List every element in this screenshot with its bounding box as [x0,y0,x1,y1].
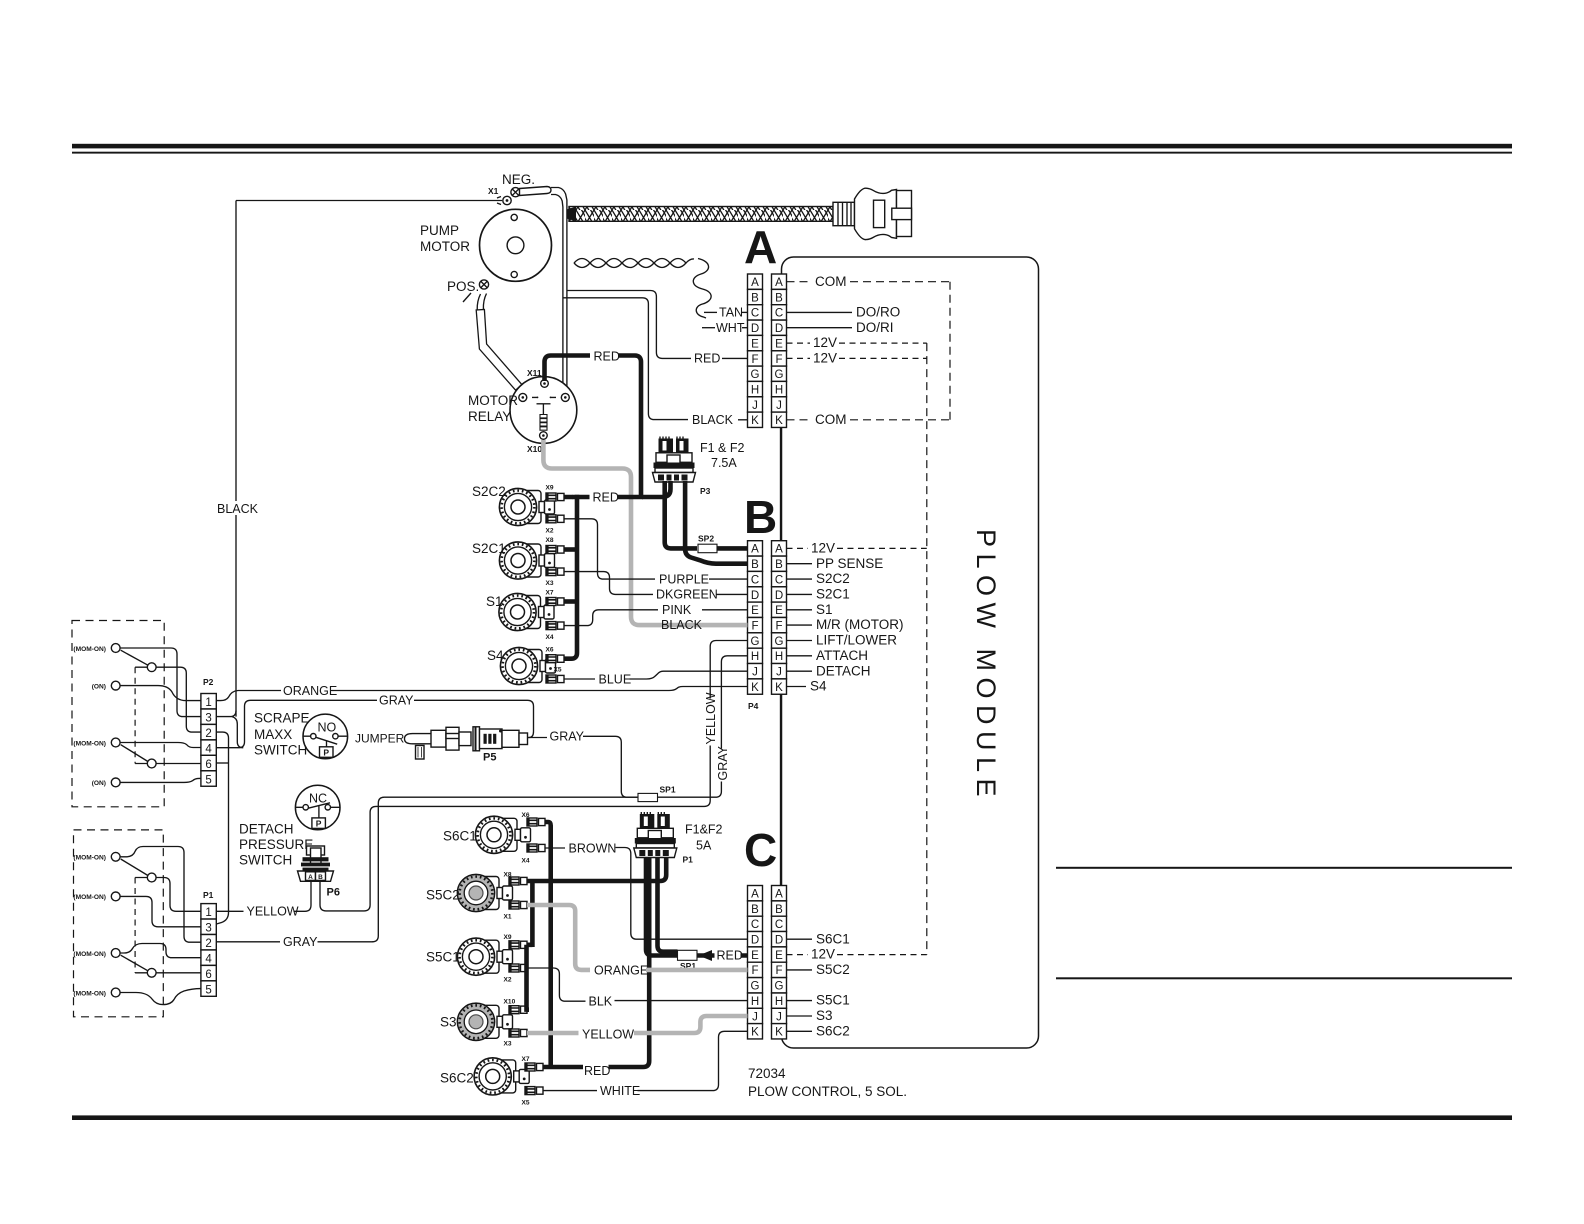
svg-text:A: A [775,544,783,556]
YELLOW gray wire after label to C-J [634,1016,748,1033]
svg-text:J: J [776,400,782,412]
POS battery cable to motor relay [477,294,486,311]
svg-text:F1 & F2: F1 & F2 [700,441,745,455]
svg-text:X7: X7 [522,1056,530,1063]
svg-text:TAN: TAN [719,306,743,320]
S4 terminal X6 [546,655,564,663]
wire P1 switch1 common to pin 1 [156,878,201,912]
svg-text:A: A [775,889,783,901]
svg-text:P5: P5 [483,752,496,764]
P2 switch linkage dashed [135,667,147,763]
svg-text:BLK: BLK [589,994,613,1008]
svg-text:H: H [751,384,759,396]
svg-text:A: A [775,277,783,289]
svg-text:B: B [318,874,323,881]
svg-text:ORANGE: ORANGE [594,963,648,977]
svg-text:D: D [775,323,783,335]
svg-text:G: G [751,369,760,381]
svg-text:P6: P6 [327,887,340,899]
BLACK wire label [216,501,258,515]
svg-text:P1: P1 [203,890,214,900]
svg-text:X8: X8 [546,537,554,544]
fuse F1 and F2 5A block P1 [634,812,677,858]
svg-text:F: F [775,354,782,366]
wire P1 switch1 MOM-ON top to pin 2 [120,847,201,943]
svg-text:J: J [752,400,758,412]
wire from X1 ring terminal to long black vertical [236,200,502,202]
plow module enclosure box [782,257,1039,1048]
PINK wire S1 X4 to B-E [564,610,658,626]
svg-text:S2C1: S2C1 [816,587,850,602]
A-A COM label and dashed leads [787,281,813,283]
svg-text:RED: RED [584,1064,610,1078]
spliced small wires from negative cable [567,291,691,359]
BROWN wire after label to C-D [616,848,748,940]
S1 terminal X7 [546,598,564,606]
P5 harness connector [473,727,528,751]
RED 12V wire SP1 to C-E with arrow [697,953,748,958]
svg-text:YELLOW: YELLOW [582,1028,634,1042]
svg-text:(MOM-ON): (MOM-ON) [73,646,106,653]
RED feed bus along coils X9 to X6 [564,495,577,659]
ORANGE wire to B-K after label [332,687,748,691]
svg-text:PRESSURE: PRESSURE [239,837,313,852]
svg-text:C: C [775,574,783,586]
connector A left column pin boxes [748,274,763,427]
RED bus branch to X8 [564,547,579,552]
svg-text:DO/RI: DO/RI [856,320,894,335]
svg-text:GRAY: GRAY [379,694,414,708]
connector B right column pin boxes [772,541,787,695]
PURPLE wire S2C2 X2 to B-C [564,519,655,579]
svg-text:E: E [751,950,759,962]
solenoid coil S4 [500,647,555,684]
svg-text:J: J [752,1011,758,1023]
svg-text:X6: X6 [546,646,554,653]
B-A 12V label and dashed leads [787,547,809,549]
DKGREEN lead to box [716,593,748,595]
A-C DO/RO label and lead [787,311,853,313]
P1 rocker switch 1 contacts [111,852,156,900]
S5C2 terminal X1 [509,901,527,909]
svg-text:S6C2: S6C2 [440,1071,474,1086]
svg-text:POS.: POS. [447,279,479,294]
battery cable plug connector [855,188,912,239]
svg-text:5A: 5A [696,839,712,853]
svg-text:PINK: PINK [662,603,692,617]
svg-text:X1: X1 [488,186,499,196]
X1 ring terminal [497,196,511,204]
RED label (coil feed C) [583,1064,610,1079]
svg-text:DETACH: DETACH [816,663,871,678]
wire P2 switch2 common to pin 6 [156,763,201,765]
S6C2 terminal X7 [525,1063,543,1071]
RED thick wire from relay X11 to fuse P3 [545,356,591,382]
svg-text:ATTACH: ATTACH [816,648,868,663]
svg-text:X9: X9 [504,934,512,941]
fuse output wires to SP2 and splice to B-A B-B [665,481,697,548]
GRAY vertical wire label [716,745,730,781]
pump motor body [480,209,552,281]
svg-text:(ON): (ON) [92,780,106,787]
svg-text:X11: X11 [527,368,542,378]
svg-text:BLACK: BLACK [217,502,259,516]
svg-text:X8: X8 [504,872,512,879]
BLACK wire from negative cable to A-K [563,298,688,420]
wire P2 switch2 ON to pin 5 [120,778,201,782]
A-F 12V label and dashed leads [787,357,811,359]
svg-text:B: B [775,559,783,571]
svg-text:BLUE: BLUE [599,672,632,686]
fuse P1 output wire 2 to SP1 splice [658,858,678,952]
wire P1 switch2 common to pin 6 [156,972,201,974]
svg-text:S1: S1 [486,594,503,609]
battery cable ribbed boot [833,202,855,225]
svg-text:2: 2 [205,938,211,950]
wire from connector A right K to connector B right A [780,428,782,541]
S6C2 terminal X5 [525,1087,543,1095]
svg-text:6: 6 [205,969,211,981]
svg-text:SP2: SP2 [698,534,714,544]
PINK lead to box [702,609,748,611]
svg-text:MOTOR: MOTOR [420,239,470,254]
svg-text:X4: X4 [546,634,554,641]
connector C right column pin boxes [772,886,787,1039]
svg-text:RED: RED [717,949,743,963]
svg-text:5: 5 [205,774,211,786]
fuse P1 output wire to SP1 splice [646,858,678,956]
GRAY wire P1 pin2 [216,941,280,943]
WHITE wire after label to C-K [638,1031,748,1090]
svg-text:X4: X4 [522,858,530,865]
S6C1 terminal X4 [527,844,545,852]
GRAY wire to P5 connector [414,700,534,737]
svg-text:K: K [751,1027,759,1039]
battery cable braid [567,207,834,222]
solenoid coil S1 [499,593,554,630]
connector P2 pin boxes [201,694,216,787]
svg-text:A: A [744,221,777,273]
connector A right column pin boxes [772,274,787,427]
BROWN wire S6C1 X4 to C-D [545,847,565,849]
bottom border line [72,1115,1512,1120]
svg-text:K: K [751,682,759,694]
svg-text:C: C [775,308,783,320]
GRAY wire after label to riser [318,941,374,943]
svg-text:JUMPER: JUMPER [355,732,405,746]
svg-text:12V: 12V [811,947,835,962]
long black wire down left side (to P2 pin 3) [235,201,237,717]
svg-text:12V: 12V [811,541,835,556]
wire P2 pin3 branch to pin4 row [232,717,243,748]
svg-text:F: F [751,621,758,633]
svg-text:P2: P2 [203,677,214,687]
wire P1 switch1 MOM-ON bottom to pin 3 [120,896,201,926]
C-K S6C2 label and lead [787,1030,813,1032]
svg-text:6: 6 [205,759,211,771]
svg-text:RELAY: RELAY [468,409,511,424]
C-D S6C1 label and lead [787,938,813,940]
svg-text:P: P [323,748,329,758]
svg-text:P3: P3 [700,486,711,496]
X11 terminal [541,380,549,388]
svg-text:P: P [316,819,322,829]
svg-text:J: J [776,1011,782,1023]
svg-text:GRAY: GRAY [550,729,585,743]
svg-text:F: F [751,354,758,366]
svg-text:F: F [751,965,758,977]
WHITE wire S6C2 X5 to C-K [543,1090,597,1092]
svg-text:S2C2: S2C2 [472,484,506,499]
S5C2 terminal X8 [509,877,527,885]
svg-text:B: B [751,559,759,571]
svg-text:A: A [751,544,759,556]
C-J S3 label and lead [787,1015,813,1017]
svg-text:WHITE: WHITE [600,1084,640,1098]
svg-text:PLOW MODULE: PLOW MODULE [971,529,1001,803]
ORANGE wire P2 pin1 to B-K [216,691,281,701]
C-E 12V label and dashed leads [787,954,809,956]
svg-text:X10: X10 [504,999,516,1006]
solenoid coil S2C2 [499,488,554,525]
svg-text:BLACK: BLACK [661,618,703,632]
ORANGE gray wire S5C2 X1 to C-F [527,905,590,970]
POS terminal stud [463,280,489,302]
svg-text:COM: COM [815,274,847,289]
svg-text:GRAY: GRAY [716,745,730,780]
svg-text:ORANGE: ORANGE [283,684,337,698]
gray wire from relay X10 to B-F (BLACK) [543,440,747,625]
fuse F1 and F2 7.5A block P3 [653,437,696,483]
svg-text:G: G [775,369,784,381]
svg-text:NEG.: NEG. [502,172,535,187]
svg-text:S3: S3 [440,1015,457,1030]
note line 1 right side [1056,867,1512,869]
svg-text:GRAY: GRAY [283,935,318,949]
svg-text:PUMP: PUMP [420,223,459,238]
svg-text:F1&F2: F1&F2 [685,823,723,837]
svg-text:B: B [751,904,759,916]
RED wire segment after label [617,495,643,500]
svg-text:H: H [751,651,759,663]
svg-text:B: B [775,292,783,304]
svg-text:K: K [775,682,783,694]
svg-text:1: 1 [205,697,211,709]
DKGREEN wire S2C1 X3 to B-D [564,572,653,595]
B-F M/R (MOTOR) label and lead [787,624,813,626]
svg-text:D: D [775,935,783,947]
svg-text:G: G [775,981,784,993]
svg-text:DETACH: DETACH [239,822,294,837]
wire P2 pin4 to jumper GRAY [216,700,377,747]
wire P1 switch2 MOM-ON top to pin 4 [120,944,201,958]
connector B left column pin boxes [748,541,763,695]
svg-text:MOTOR: MOTOR [468,393,518,408]
svg-text:(MOM-ON): (MOM-ON) [73,990,106,997]
svg-text:72034: 72034 [748,1066,786,1081]
S1 terminal X4 [546,622,564,630]
C-F S5C2 label and lead [787,969,813,971]
svg-text:(ON): (ON) [92,683,106,690]
svg-text:S4: S4 [810,679,827,694]
svg-text:B: B [751,292,759,304]
BLUE wire S4 X5 to B-J [564,678,595,680]
RED bus branch to X7 [564,599,579,604]
svg-text:K: K [775,415,783,427]
svg-text:2: 2 [205,728,211,740]
svg-text:H: H [751,996,759,1008]
svg-text:YELLOW: YELLOW [247,905,299,919]
wire P2 pin2 to P1 pin3 [216,732,228,924]
GRAY wire from label down to SP1 line [583,736,638,797]
svg-text:X9: X9 [546,485,554,492]
P2 hand-held control dashed outline [72,621,164,807]
svg-text:S5C1: S5C1 [816,993,850,1008]
NEG battery cable pair to relay and braid [551,188,567,394]
GRAY wire SP1 to B-H riser [658,656,748,797]
svg-text:SCRAPE: SCRAPE [254,711,310,726]
svg-text:X3: X3 [546,580,554,587]
svg-text:C: C [775,919,783,931]
svg-text:E: E [775,605,783,617]
connector C left column pin boxes [748,886,763,1039]
svg-text:SWITCH: SWITCH [239,853,292,868]
A-K COM label and dashed leads [787,419,813,421]
P1 rocker switch 2 contacts [111,949,156,997]
svg-text:E: E [775,338,783,350]
wire P2 switch1 ON to pin 1 [120,686,201,701]
RED bus S6C1 X6 down to S6C2 X7 [545,822,551,1067]
RED wire X9 to fuse P3 junction [572,495,590,500]
svg-text:4: 4 [205,743,212,755]
thick wire S5C1 X9 riser to X8 line [527,881,532,947]
svg-text:COM: COM [815,412,847,427]
svg-text:3: 3 [205,923,211,935]
B-G LIFT/LOWER label and lead [787,640,813,642]
svg-text:RED: RED [694,352,720,366]
solenoid coil S3 [457,1003,512,1040]
NC detach pressure switch symbol [295,785,340,830]
X10 terminal [540,432,548,440]
svg-text:A: A [751,277,759,289]
svg-text:D: D [775,590,783,602]
svg-text:X6: X6 [522,812,530,819]
svg-text:S6C1: S6C1 [816,931,850,946]
svg-text:A: A [751,889,759,901]
svg-text:P4: P4 [748,701,759,711]
BLUE wire jog into B-J [630,671,748,679]
PURPLE lead to box [709,578,748,580]
svg-text:12V: 12V [813,351,837,366]
svg-text:E: E [775,950,783,962]
svg-text:S1: S1 [816,602,833,617]
svg-text:PLOW CONTROL, 5 SOL.: PLOW CONTROL, 5 SOL. [748,1084,907,1099]
B-C S2C2 label and lead [787,578,813,580]
svg-text:M/R (MOTOR): M/R (MOTOR) [816,617,904,632]
RED wire lead into A-F [722,357,748,359]
svg-text:(MOM-ON): (MOM-ON) [73,951,106,958]
BLACK vertical wire joins P2 pin 3 [216,711,236,717]
SP1 splice (12V feed) [678,950,698,960]
wire from connector B right K to connector C right A [780,694,782,885]
svg-text:S3: S3 [816,1008,833,1023]
top border thick line [72,144,1512,149]
svg-text:S5C2: S5C2 [816,962,850,977]
svg-text:DO/RO: DO/RO [856,305,900,320]
YELLOW wire lead P1 pin1 [216,910,243,912]
SP2 splice [698,544,717,553]
svg-text:X10: X10 [527,444,542,454]
solenoid coil S5C1 [457,938,512,975]
TAN wire label [704,311,717,313]
B-K S4 label and lead [787,686,807,688]
svg-text:12V: 12V [813,335,837,350]
svg-text:SP1: SP1 [660,785,676,795]
P1 switch linkage dashed [135,878,147,973]
ORANGE gray wire after label [646,968,748,973]
svg-text:K: K [751,415,759,427]
NEG terminal stud [511,187,551,197]
P1 hand-held control dashed outline [74,830,164,1017]
svg-text:4: 4 [205,954,212,966]
fuse extra output stub to RED junction [642,481,671,497]
B-B PP SENSE label and lead [787,563,813,565]
GRAY wire P1-2 riser to SP1 line [372,797,637,942]
svg-text:P1: P1 [683,855,694,865]
svg-text:3: 3 [205,713,211,725]
svg-text:J: J [776,667,782,679]
jumper plug housing [431,727,471,750]
GRAY wire from P5 to SP1 splice [528,737,548,739]
svg-text:NO: NO [318,721,337,735]
S2C1 terminal X3 [546,568,564,576]
svg-text:BLACK: BLACK [692,413,734,427]
svg-text:X7: X7 [546,590,554,597]
wire P1 switch2 MOM-ON bottom to pin 5 [120,989,201,1005]
S3 terminal X3 [509,1029,527,1037]
svg-text:C: C [751,308,759,320]
svg-text:S6C2: S6C2 [816,1023,850,1038]
svg-text:S5C1: S5C1 [426,950,460,965]
thick wire S5C2 X8 to fuse P1 [527,858,666,881]
svg-text:BROWN: BROWN [569,841,617,855]
svg-text:H: H [775,384,783,396]
svg-text:NC: NC [309,791,327,805]
svg-text:5: 5 [205,984,211,996]
svg-text:X2: X2 [504,977,512,984]
svg-text:C: C [744,824,777,876]
svg-text:E: E [751,605,759,617]
svg-text:B: B [744,491,777,543]
svg-text:S6C1: S6C1 [443,829,477,844]
SP1 splice (attach circuit) [638,793,658,801]
svg-text:YELLOW: YELLOW [704,692,718,744]
svg-text:1: 1 [205,907,211,919]
wire P2 pin6 stub to pin2 wire [216,762,228,764]
wire P2 switch1 MOM-ON to pin 3 [120,648,201,717]
A-E 12V label and dashed leads [787,342,811,344]
B-H ATTACH label and lead [787,655,813,657]
svg-text:F: F [775,965,782,977]
twisted pair wires to TAN WHT [574,259,711,319]
svg-text:(MOM-ON): (MOM-ON) [73,894,106,901]
P6 pressure switch connector [298,846,334,881]
S2C2 terminal X2 [546,515,564,523]
svg-text:X1: X1 [504,914,512,921]
svg-text:S2C2: S2C2 [816,571,850,586]
P2 rocker switch 1 contacts [111,644,156,690]
svg-text:S4: S4 [487,648,504,663]
